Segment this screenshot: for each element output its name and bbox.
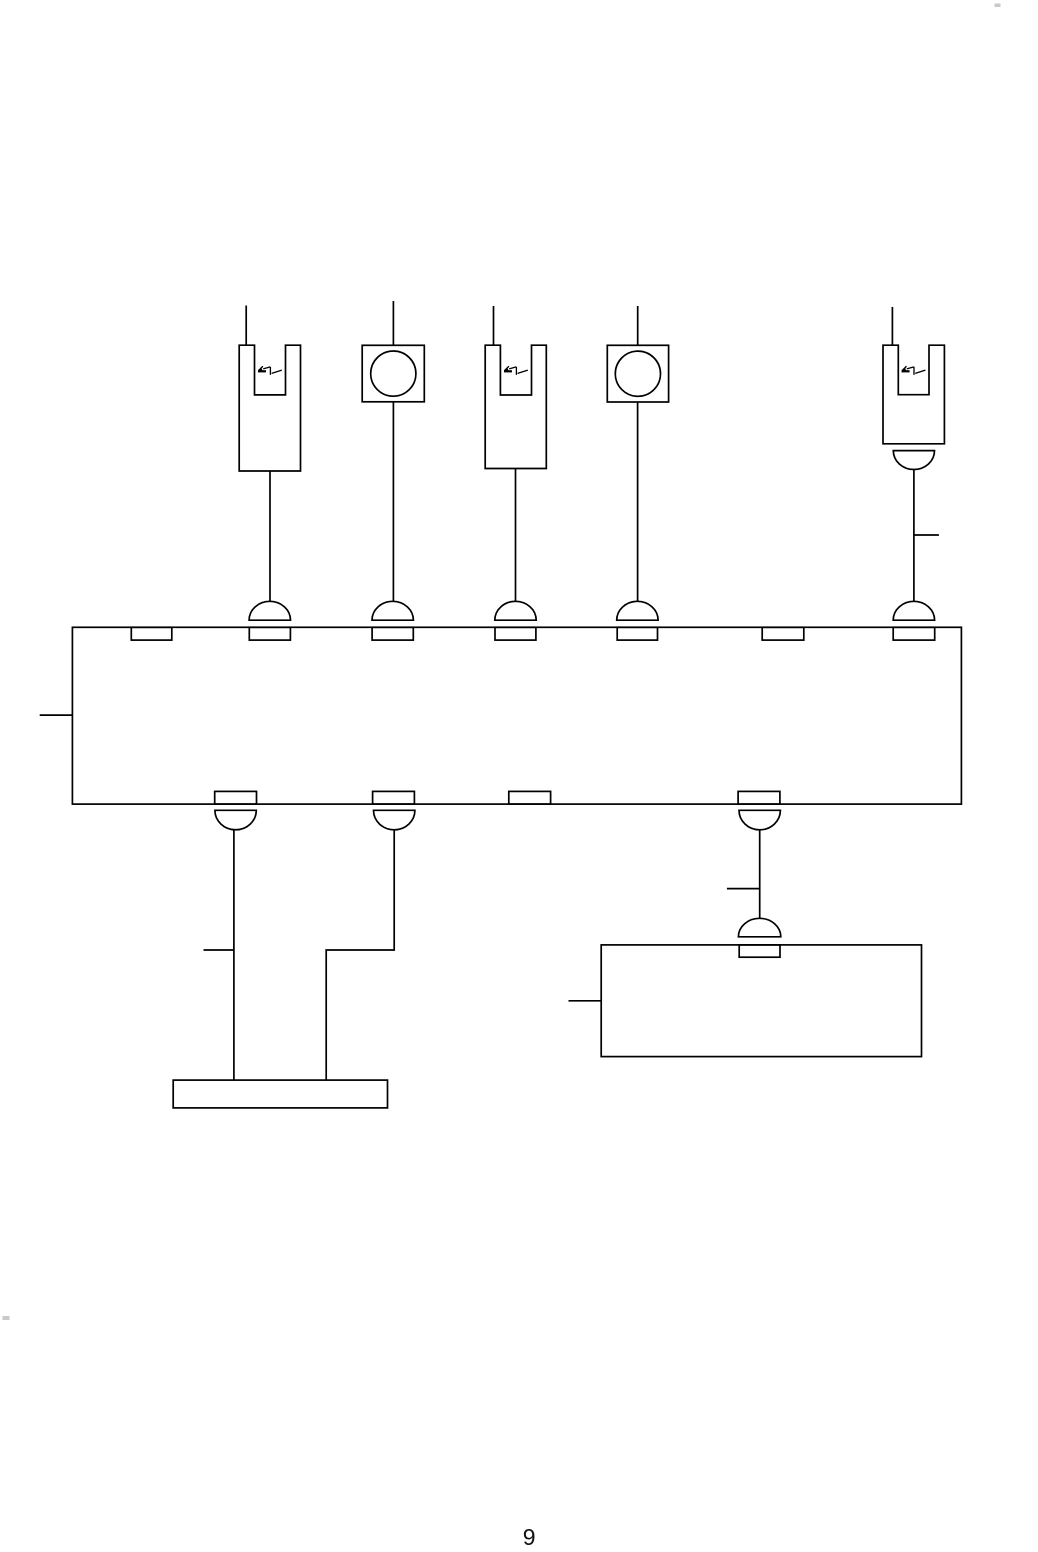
- leader tick on T3 wire: [914, 534, 939, 536]
- plug P4 dome: [617, 601, 658, 620]
- bottom plate: [173, 1080, 387, 1108]
- wire lead above transducer T1: [245, 306, 247, 346]
- plug Q2 dome below bus: [374, 810, 415, 830]
- wire Q2 bent to bottom plate: [326, 830, 394, 1080]
- wire Q3 down: [759, 830, 761, 919]
- transducer T3 (forked ultrasonic probe, short): [883, 345, 944, 444]
- arrow squiggle in T2: [504, 366, 528, 375]
- socket S2 on bus top: [249, 627, 290, 640]
- transducer T2 (forked ultrasonic probe): [485, 345, 546, 468]
- socket B2 on bus bottom: [373, 791, 415, 804]
- wire lead above motor M2: [637, 306, 639, 345]
- plug P1 dome: [249, 601, 290, 620]
- wire T2 to plug P3: [515, 469, 517, 602]
- leader stub on left of control box: [569, 1000, 602, 1002]
- wire Q1 to bottom plate: [233, 830, 235, 1080]
- socket B1 on bus bottom: [215, 791, 257, 804]
- empty socket B3 on bus bottom: [509, 791, 551, 804]
- wire lead above motor M1: [392, 301, 394, 345]
- motor M1 circle: [371, 351, 416, 396]
- bus bar housing: [72, 627, 961, 804]
- connector dome under T3: [893, 451, 934, 470]
- motor M2 circle: [615, 351, 660, 396]
- wire M2 to plug P4: [637, 402, 639, 601]
- leader tick on Q1 wire: [204, 949, 234, 951]
- arrow squiggle in T3: [901, 366, 925, 375]
- socket S5 on bus top: [617, 627, 657, 640]
- plug Q3 dome below bus: [739, 810, 780, 830]
- plug P3 dome: [495, 601, 536, 620]
- wire M1 to plug P2: [392, 402, 394, 602]
- wire T1 to plug P1: [269, 471, 271, 601]
- arrow squiggle in T1: [258, 366, 282, 375]
- empty socket S1 on bus top: [131, 627, 172, 640]
- socket B4 on bus bottom: [738, 791, 780, 804]
- socket S3 on bus top: [372, 627, 413, 640]
- plug P2 dome: [372, 601, 413, 620]
- motor M1 square: [362, 345, 424, 402]
- leader stub on left of bus: [40, 714, 73, 716]
- wire lead above transducer T2: [493, 306, 495, 345]
- plug Q1 dome below bus: [215, 810, 256, 829]
- socket on control box top: [739, 945, 780, 957]
- wire T3 dome to plug P5: [913, 470, 915, 602]
- empty socket S6 on bus top: [762, 627, 804, 640]
- motor M2 square: [607, 345, 668, 402]
- leader tick on Q3 wire: [727, 888, 760, 890]
- svg-text:9: 9: [523, 1524, 536, 1550]
- faint speck bottom left: [3, 1316, 10, 1320]
- faint speck top right: [995, 4, 1001, 8]
- transducer T1 (forked ultrasonic probe): [239, 345, 300, 471]
- wire lead above transducer T3: [891, 307, 893, 345]
- plug P5 dome: [893, 601, 934, 620]
- control box: [601, 945, 921, 1057]
- socket S7 on bus top: [893, 627, 935, 640]
- plug R1 dome above box: [738, 918, 780, 936]
- socket S4 on bus top: [495, 627, 536, 640]
